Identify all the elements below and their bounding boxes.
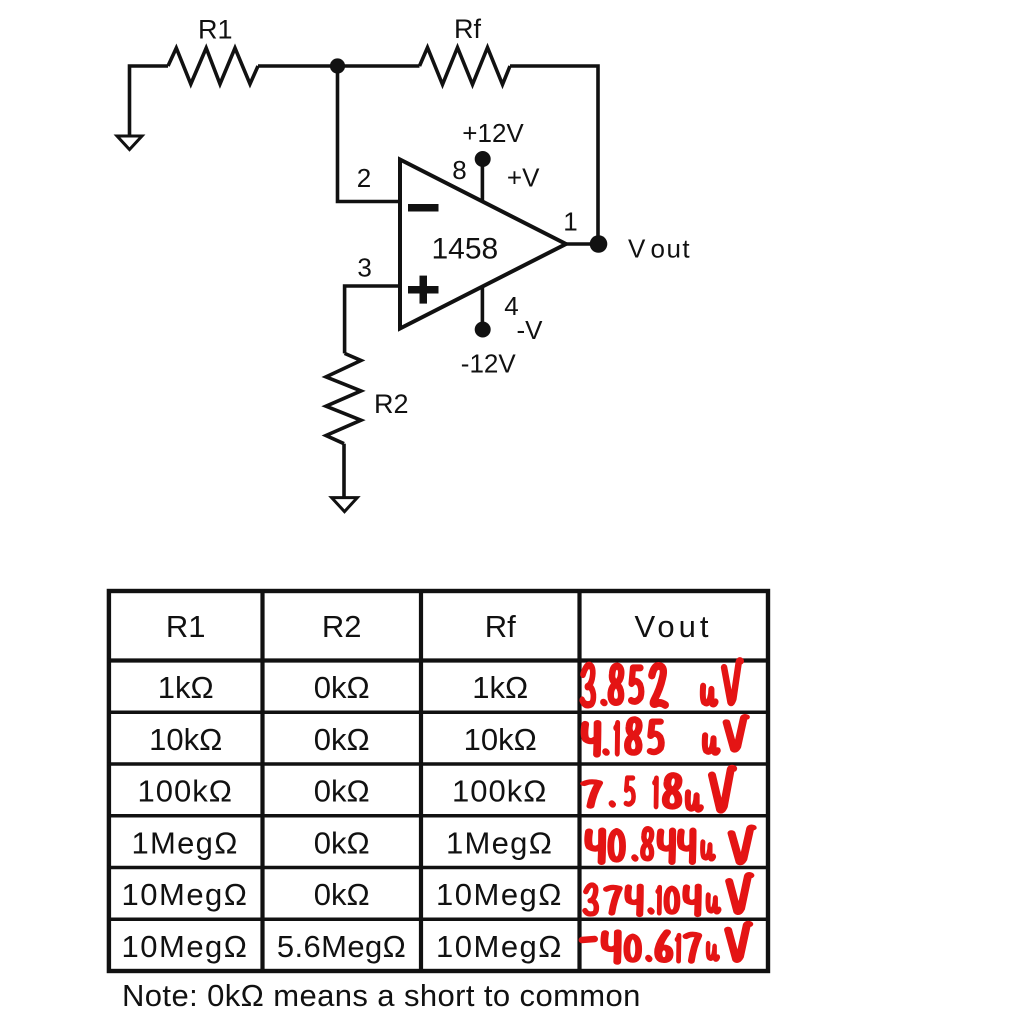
svg-text:1458: 1458	[432, 233, 499, 266]
svg-text:10kΩ: 10kΩ	[464, 722, 537, 757]
node: output dot	[590, 235, 608, 253]
table data column R2	[277, 670, 406, 964]
handwritten Vout value 7.518uV	[584, 768, 733, 810]
table outer border	[109, 591, 768, 971]
handwritten Vout value -40.617uV	[582, 924, 750, 962]
ground (input side)	[117, 136, 142, 150]
table row line 1	[107, 711, 770, 715]
table row line 2	[107, 762, 770, 766]
svg-text:1: 1	[563, 207, 577, 237]
wire: pin 8 stub	[481, 160, 485, 202]
table grid	[107, 589, 770, 971]
table column divider 2	[419, 589, 423, 971]
node: junction dot	[330, 58, 345, 73]
table row line 5	[107, 918, 770, 922]
table header text	[166, 609, 713, 644]
svg-text:0kΩ: 0kΩ	[314, 774, 370, 809]
svg-text:10MegΩ: 10MegΩ	[122, 877, 249, 912]
table row line 3	[107, 814, 770, 818]
resistor Rf	[420, 48, 511, 85]
handwritten Vout value 4.185uV	[585, 717, 747, 755]
svg-text:V: V	[628, 233, 646, 263]
svg-text:100kΩ: 100kΩ	[137, 774, 232, 809]
svg-text:out: out	[651, 233, 692, 263]
svg-text:R2: R2	[322, 609, 362, 644]
svg-text:R2: R2	[374, 389, 409, 419]
table row line 4	[107, 866, 770, 870]
svg-text:-V: -V	[517, 315, 544, 345]
svg-text:R1: R1	[198, 15, 233, 45]
table data column Rf	[436, 670, 563, 964]
svg-text:0kΩ: 0kΩ	[314, 826, 370, 861]
svg-text:5.6MegΩ: 5.6MegΩ	[277, 929, 406, 964]
svg-text:0kΩ: 0kΩ	[314, 877, 370, 912]
svg-text:0kΩ: 0kΩ	[314, 722, 370, 757]
svg-text:100kΩ: 100kΩ	[452, 774, 547, 809]
resistor R1	[168, 48, 258, 84]
svg-text:8: 8	[452, 155, 466, 185]
wire: op-amp output to node	[566, 242, 598, 246]
svg-text:0kΩ: 0kΩ	[314, 670, 370, 705]
svg-text:10MegΩ: 10MegΩ	[122, 929, 249, 964]
wire: R1 to junction to Rf	[258, 64, 420, 68]
svg-text:-12V: -12V	[461, 349, 517, 379]
svg-text:+V: +V	[507, 163, 540, 193]
table column divider 1	[260, 589, 264, 971]
svg-text:2: 2	[357, 163, 371, 193]
svg-text:10kΩ: 10kΩ	[149, 722, 222, 757]
table data column R1	[122, 670, 249, 964]
svg-text:3: 3	[357, 253, 371, 283]
wire: Rf to output node	[510, 66, 598, 244]
inverting input minus sign	[408, 204, 439, 212]
handwritten Vout value 3.852uV	[582, 661, 741, 705]
table header underline	[107, 658, 770, 662]
op-amp U1 1458	[400, 160, 566, 329]
non-inverting input plus sign	[408, 276, 439, 304]
svg-text:1MegΩ: 1MegΩ	[446, 826, 553, 861]
svg-text:10MegΩ: 10MegΩ	[436, 929, 563, 964]
node: pin 4 supply dot	[475, 322, 491, 338]
wire: R2 to ground	[342, 444, 346, 498]
wire: input from ground to R1	[130, 66, 169, 136]
svg-text:1kΩ: 1kΩ	[158, 670, 214, 705]
svg-text:+12V: +12V	[462, 118, 524, 148]
resistor R2	[326, 353, 361, 443]
table column divider 3	[577, 589, 581, 971]
ground (R2 bottom)	[332, 498, 358, 512]
handwritten Vout value 374.104uV	[585, 875, 750, 914]
svg-text:Rf: Rf	[454, 14, 481, 44]
wire: pin 4 stub	[481, 287, 485, 329]
handwritten Vout value 40.844uV	[588, 827, 752, 862]
wire: junction down to pin 2	[338, 66, 400, 202]
wire: pin 3 to R2	[345, 286, 399, 353]
svg-text:10MegΩ: 10MegΩ	[436, 877, 563, 912]
svg-text:Vout: Vout	[634, 609, 712, 644]
node: pin 8 supply dot	[475, 151, 491, 167]
svg-text:Note: 0kΩ means a short to com: Note: 0kΩ means a short to common	[122, 978, 641, 1013]
svg-text:1MegΩ: 1MegΩ	[131, 826, 238, 861]
svg-text:1kΩ: 1kΩ	[472, 670, 528, 705]
svg-text:R1: R1	[166, 609, 206, 644]
svg-text:Rf: Rf	[485, 609, 516, 644]
